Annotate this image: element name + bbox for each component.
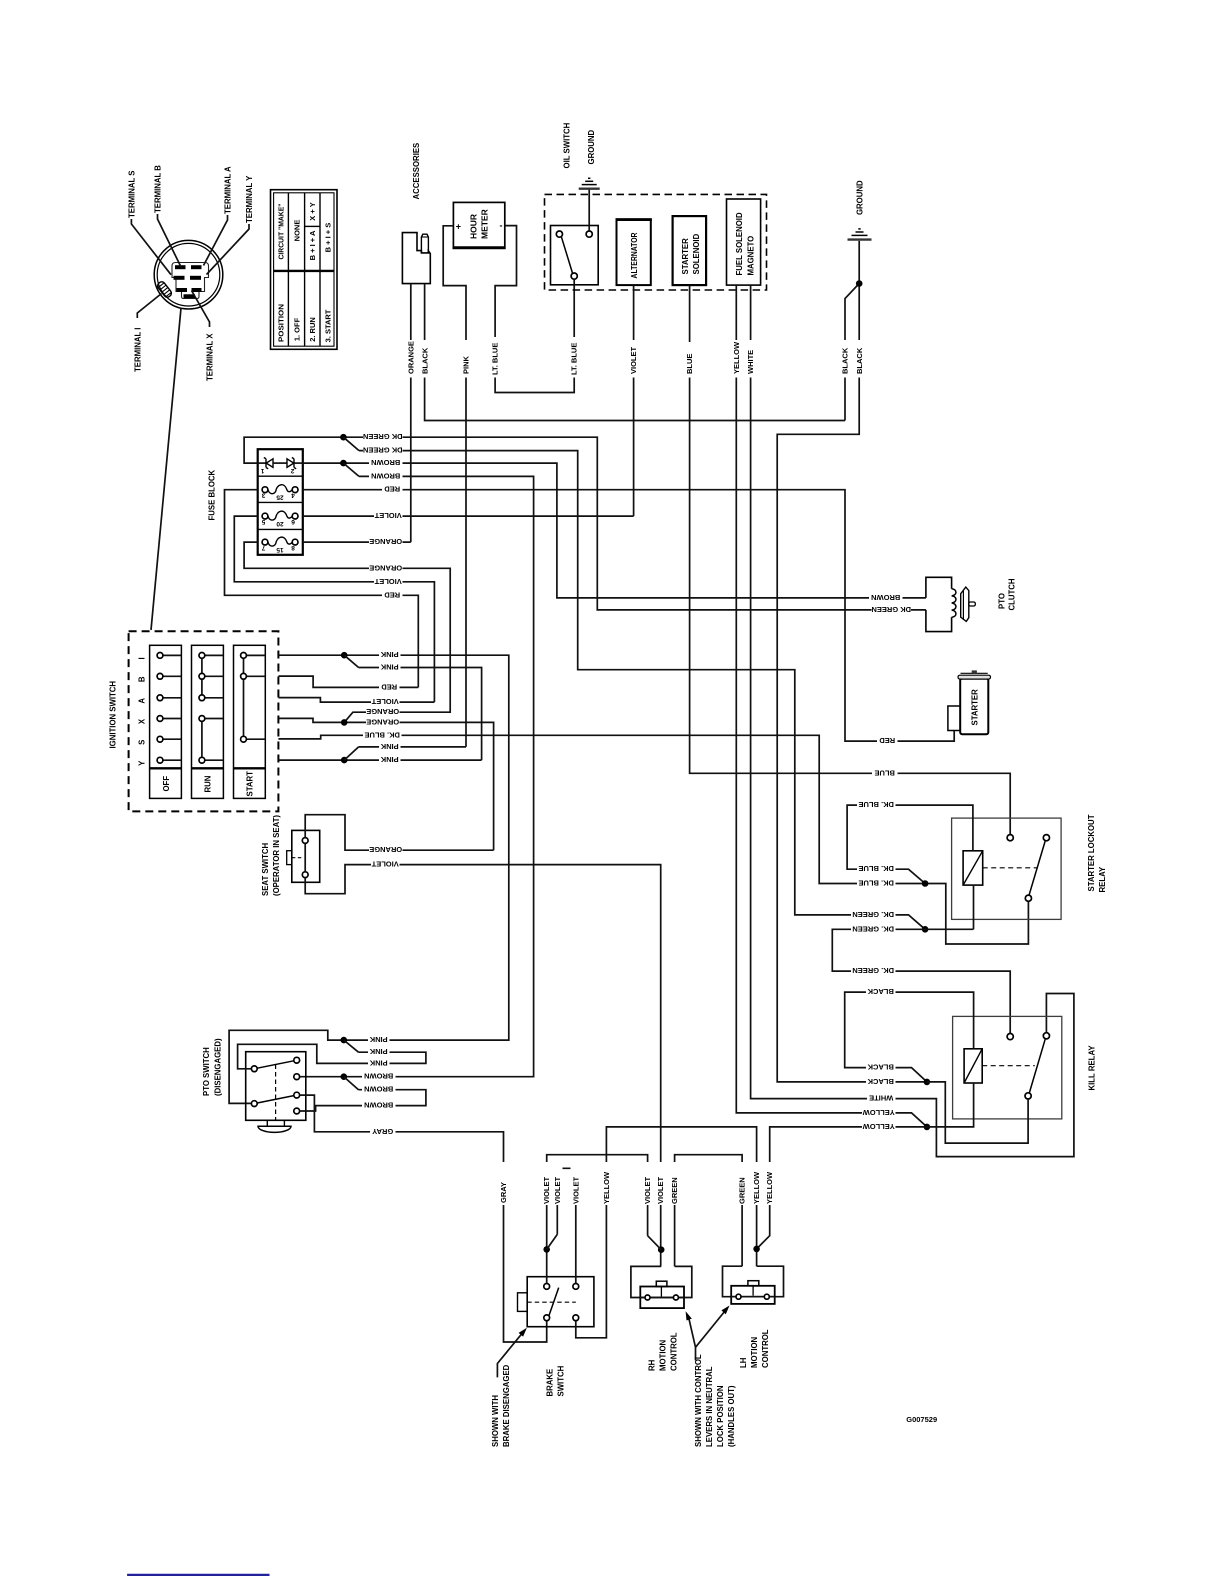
svg-text:PINK: PINK — [380, 663, 399, 672]
svg-text:1. OFF: 1. OFF — [292, 317, 301, 341]
wire YELLOW kill relay to LH motion control — [757, 1127, 927, 1249]
terminal blade S (row1 left) — [175, 265, 186, 269]
wire DK BLUE coil top loop — [847, 805, 973, 883]
label BROWN (PTO row 2) — [362, 1085, 396, 1095]
starter motor cap — [958, 675, 991, 679]
svg-text:6: 6 — [291, 518, 295, 525]
label BROWN (row 1) — [369, 459, 403, 469]
oil switch pin bottom — [571, 273, 577, 279]
label VIOLET (brake wire 3) — [571, 1162, 582, 1205]
svg-text:PINK: PINK — [380, 742, 399, 751]
fuse block divider 2 — [258, 501, 303, 503]
wire DK GREEN diode-left loop to PTO clutch — [244, 437, 926, 610]
wire ORANGE seat switch top bracket — [305, 815, 493, 851]
svg-text:LH: LH — [739, 1357, 748, 1368]
label YELLOW (kill relay row 1) — [862, 1108, 896, 1118]
connector key outline (stepped) — [172, 263, 209, 299]
svg-text:I: I — [137, 657, 146, 659]
svg-text:3. START: 3. START — [324, 309, 333, 342]
PTO switch pins — [251, 1066, 257, 1072]
svg-text:SWITCH: SWITCH — [557, 1365, 566, 1396]
label DK. BLUE (feed row) — [857, 879, 896, 889]
ignition RUN column box — [192, 645, 224, 798]
svg-text:B + I + S: B + I + S — [324, 223, 333, 253]
svg-text:SEAT SWITCH: SEAT SWITCH — [261, 842, 270, 896]
label ORANGE (accessories wire) — [406, 340, 417, 378]
fuel solenoid magneto box — [727, 199, 761, 285]
terminal blade (row2 left) — [174, 276, 185, 280]
svg-text:TERMINAL X: TERMINAL X — [206, 333, 215, 381]
svg-text:OFF: OFF — [162, 776, 171, 792]
label DK. GREEN (coil bottom row) — [851, 925, 896, 935]
label ORANGE (seat switch wire) — [369, 846, 403, 856]
svg-text:TERMINAL I: TERMINAL I — [133, 328, 142, 372]
label DK. BLUE (ignition S row) — [363, 731, 402, 741]
label YELLOW (LH MC wire 2) — [764, 1162, 775, 1205]
svg-text:BLACK: BLACK — [841, 347, 850, 374]
svg-text:GROUND: GROUND — [587, 129, 596, 164]
svg-text:RUN: RUN — [204, 775, 213, 792]
svg-text:PINK: PINK — [380, 755, 399, 764]
wire BLACK ground to kill relay (via left turn) — [777, 284, 927, 1082]
wire BLACK kill coil top loop — [845, 992, 974, 1082]
label WHITE (kill relay row) — [867, 1094, 896, 1104]
svg-text:KILL RELAY: KILL RELAY — [1088, 1045, 1097, 1091]
oil switch blade — [562, 237, 573, 273]
ignition switch rear-view connector: outer circle — [154, 240, 223, 309]
label BLACK (accessories wire) — [420, 340, 431, 378]
svg-text:TERMINAL Y: TERMINAL Y — [245, 175, 254, 223]
svg-text:BROWN: BROWN — [364, 1085, 393, 1094]
svg-text:BLUE: BLUE — [874, 768, 894, 777]
label BLACK (coil row) — [866, 988, 896, 998]
brake switch body — [527, 1277, 594, 1327]
ignition RUN pin stubs and bars — [202, 655, 224, 760]
label BLACK (loop row) — [866, 1063, 896, 1073]
leader line TERMINAL Y — [207, 224, 250, 275]
label RED (loop row) — [382, 591, 403, 601]
table divider line 2 — [304, 193, 306, 346]
LH motion control microswitch box — [731, 1286, 775, 1304]
svg-text:YELLOW: YELLOW — [602, 1171, 611, 1204]
svg-text:A: A — [137, 698, 146, 704]
svg-text:G007529: G007529 — [906, 1415, 937, 1424]
svg-text:DK. BLUE: DK. BLUE — [364, 730, 399, 739]
svg-text:VIOLET: VIOLET — [571, 1176, 580, 1204]
RH motion control microswitch box — [640, 1287, 684, 1309]
brake arrow head — [519, 1328, 527, 1337]
svg-text:TERMINAL B: TERMINAL B — [154, 165, 163, 213]
svg-text:BROWN: BROWN — [371, 458, 400, 467]
svg-text:DK. BLUE: DK. BLUE — [858, 864, 893, 873]
kill relay contact bottom — [1025, 1093, 1031, 1099]
svg-text:POSITION: POSITION — [277, 304, 286, 342]
junction dot ORANGE (X row) — [341, 719, 348, 726]
wire VIOLET fuse5 loop to ignition A — [234, 516, 434, 702]
terminal blade Y (row3 right) — [192, 288, 202, 292]
diode 1 (fuse block cell 1) — [258, 462, 266, 464]
wire VIOLET fuse6 to alternator — [303, 515, 634, 517]
table header divider (thick) — [274, 270, 334, 272]
fuse 15A (cell 4) — [268, 537, 292, 546]
svg-text:RED: RED — [384, 485, 400, 494]
svg-text:-: - — [500, 221, 503, 231]
wire PINK loop to PTO left-top pin — [238, 1044, 426, 1069]
svg-text:VIOLET: VIOLET — [643, 1176, 652, 1204]
engine dashed box — [545, 194, 767, 290]
label DK. GREEN (lockout feed row) — [851, 910, 896, 920]
RH motion control button — [656, 1281, 667, 1286]
LH motion control pins — [736, 1294, 741, 1299]
svg-text:VIOLET: VIOLET — [374, 577, 402, 586]
accessories connector prong — [421, 234, 428, 253]
wire BLUE solenoid to starter lockout relay — [690, 285, 1011, 835]
svg-text:B + I + A: B + I + A — [308, 230, 317, 260]
RH motion control plunger line — [660, 1287, 662, 1297]
svg-text:DK. GREEN: DK. GREEN — [852, 924, 894, 933]
wire hour meter + bracket to PINK — [443, 226, 466, 747]
wire PINK branch diagonal (PTO) — [344, 1040, 359, 1052]
svg-text:PINK: PINK — [369, 1047, 388, 1056]
label BROWN (row 2) — [369, 472, 403, 482]
junction dot YELLOW (LH motion control) — [753, 1246, 760, 1253]
label PINK (PTO row 3) — [368, 1059, 390, 1069]
junction dot BLACK — [924, 1079, 931, 1086]
brake arrow leader — [497, 1332, 523, 1378]
starter lockout relay contact bottom — [1025, 895, 1031, 901]
brake switch pins — [544, 1284, 550, 1290]
brake switch blade — [548, 1288, 559, 1320]
table sub divider X+Y / B+I+A — [305, 225, 320, 227]
svg-text:SHOWN WITH CONTROL: SHOWN WITH CONTROL — [694, 1354, 703, 1447]
svg-text:NONE: NONE — [292, 220, 301, 242]
label BLUE (lockout wire) — [872, 769, 898, 779]
oil switch ground symbol — [579, 187, 600, 189]
wire YELLOW brake bottom-right pin to kill relay line — [576, 1127, 757, 1338]
label RED (fuse row) — [382, 485, 403, 495]
ignition switch dashed box — [129, 631, 279, 811]
seat switch pin top — [302, 838, 308, 844]
svg-text:PINK: PINK — [369, 1035, 388, 1044]
fuse block divider 3 — [258, 528, 303, 530]
junction dot PINK (I row) — [341, 652, 348, 659]
svg-text:ACCESSORIES: ACCESSORIES — [412, 143, 421, 200]
label PINK (PTO row 1) — [368, 1036, 390, 1046]
wire VIOLET loop to brake top-right pin — [557, 1168, 576, 1283]
wire PINK ignition I to PTO switch — [229, 655, 509, 1103]
junction dot VIOLET (RH MC) — [658, 1246, 665, 1253]
svg-text:ORANGE: ORANGE — [369, 563, 402, 572]
leader line from connector to ignition switch box — [151, 308, 181, 630]
accessories connector body — [402, 233, 430, 284]
svg-text:LEVERS IN NEUTRAL: LEVERS IN NEUTRAL — [705, 1366, 714, 1447]
svg-text:BLACK: BLACK — [420, 347, 429, 374]
label VIOLET (brake wire 2) — [552, 1162, 563, 1205]
PTO switch top blade — [257, 1061, 294, 1068]
svg-text:STARTER LOCKOUT: STARTER LOCKOUT — [1087, 814, 1096, 891]
svg-text:BLACK: BLACK — [867, 1063, 894, 1072]
leader line TERMINAL X — [192, 291, 210, 328]
svg-text:B: B — [137, 676, 146, 682]
table divider line 3 — [319, 193, 321, 346]
junction dot BLACK ground — [856, 280, 863, 287]
ignition RUN pins — [199, 653, 205, 659]
svg-text:GREEN: GREEN — [738, 1177, 747, 1204]
junction dot PINK (Y row) — [341, 757, 348, 764]
svg-text:MOTION: MOTION — [750, 1336, 759, 1368]
svg-text:MOTION: MOTION — [659, 1339, 668, 1371]
starter lockout relay coil — [963, 851, 983, 885]
brake switch tab — [518, 1293, 528, 1312]
wire BLACK branch to accessories horizontal — [845, 284, 859, 421]
PTO switch body — [246, 1052, 306, 1121]
leader line TERMINAL I — [137, 294, 161, 319]
wire BROWN branch diagonal (PTO) — [344, 1077, 359, 1090]
label YELLOW (brake vertical) — [601, 1162, 612, 1205]
footer blue line — [127, 1574, 269, 1576]
label BROWN (PTO clutch wire) — [869, 593, 903, 603]
wire VIOLET brake top-left pin to RH motion control bridge — [547, 1155, 648, 1284]
svg-text:BROWN: BROWN — [371, 471, 400, 480]
label VIOLET (brake wire 1) — [541, 1162, 552, 1205]
wire DK GREEN net to kill relay — [832, 929, 1010, 1033]
wire ORANGE fuse7 loop to ignition X branch — [244, 542, 450, 722]
fuse 25A (cell 2) — [268, 485, 292, 494]
label BLACK (right wire) — [854, 340, 865, 378]
label BROWN (PTO row 1) — [362, 1072, 396, 1082]
svg-text:S: S — [137, 740, 146, 745]
svg-text:TERMINAL S: TERMINAL S — [128, 170, 137, 218]
PTO switch button necks — [266, 1120, 268, 1126]
starter lockout relay mech link (dashed) — [983, 867, 1037, 869]
label DK GREEN (row 2) — [363, 446, 403, 456]
label DK GREEN (row 1) — [363, 433, 403, 443]
wire PINK 2 branch down — [359, 668, 482, 761]
label YELLOW (LH MC wire 1) — [751, 1162, 762, 1205]
svg-text:YELLOW: YELLOW — [765, 1171, 774, 1204]
svg-text:FUEL SOLENOID: FUEL SOLENOID — [735, 212, 744, 275]
wire VIOLET ignition A jog — [278, 698, 434, 703]
label ORANGE (ignition X branch row) — [366, 708, 400, 718]
label PINK (branch row) — [379, 663, 401, 673]
LH motion control connector bracket — [723, 1266, 784, 1297]
oil switch ground stem — [588, 190, 590, 232]
svg-text:BRAKE: BRAKE — [546, 1369, 555, 1397]
PTO switch bottom blade — [257, 1096, 294, 1103]
terminal blade A (row2 right) — [190, 276, 201, 280]
svg-text:YELLOW: YELLOW — [862, 1122, 895, 1131]
hour meter box thick bottom edge — [453, 246, 506, 249]
wire PINK branch diagonal (I row) — [344, 655, 358, 667]
svg-text:METER: METER — [479, 209, 489, 239]
ignition OFF column box — [150, 645, 182, 798]
label VIOLET (alternator wire) — [628, 340, 639, 378]
svg-text:2. RUN: 2. RUN — [308, 317, 317, 342]
RH motion control connector bracket — [631, 1266, 692, 1297]
switch position table: inner border — [274, 193, 334, 346]
svg-text:LOCK POSITION: LOCK POSITION — [716, 1385, 725, 1447]
kill relay contact top — [1007, 1034, 1013, 1040]
terminal blade B (row1 right) — [191, 265, 202, 269]
leader line TERMINAL S — [131, 219, 171, 275]
alternator box — [617, 219, 651, 285]
label WHITE (magneto wire) — [745, 340, 756, 378]
svg-text:BROWN: BROWN — [364, 1072, 393, 1081]
label DK. BLUE (loop row) — [857, 865, 896, 875]
wire GREEN RH to LH motion control bridge — [675, 1155, 743, 1267]
wire DK GREEN lockout coil bottom — [973, 885, 975, 929]
label GREEN (RH MC wire) — [669, 1162, 680, 1205]
label GRAY (PTO row) — [370, 1127, 396, 1137]
junction dot BROWN — [340, 460, 347, 467]
svg-text:GROUND: GROUND — [856, 180, 865, 215]
label VIOLET (loop row) — [374, 577, 403, 587]
label BLUE (solenoid wire, vertical) — [684, 342, 695, 378]
fuse 20A (cell 3) — [268, 511, 292, 520]
ignition OFF pins — [157, 653, 163, 659]
svg-text:RED: RED — [381, 682, 397, 691]
label RED (ignition B row) — [379, 683, 400, 693]
wire GRAY PTO switch to brake switch — [300, 1095, 547, 1342]
wire PINK branch diagonal (Y row) — [344, 747, 358, 760]
svg-text:ORANGE: ORANGE — [369, 845, 402, 854]
terminal I hatched keyway — [156, 280, 173, 298]
svg-text:DK. BLUE: DK. BLUE — [858, 879, 893, 888]
svg-text:ORANGE: ORANGE — [366, 707, 399, 716]
oil switch pin right — [586, 231, 592, 237]
label DK. BLUE (coil row) — [857, 801, 896, 811]
label RED (starter wire) — [877, 737, 898, 747]
wire PINK ignition Y row — [278, 759, 481, 761]
motion control arrows fork — [688, 1316, 695, 1361]
label DK GREEN (PTO clutch wire) — [872, 605, 912, 615]
svg-text:GRAY: GRAY — [499, 1182, 508, 1203]
label PINK (I row) — [379, 651, 401, 661]
wire ORANGE accessories-to-fuse8 (vertical) — [410, 284, 412, 542]
oil switch pin left — [556, 231, 562, 237]
starter motor top plate — [961, 672, 988, 674]
svg-text:PINK: PINK — [462, 355, 471, 374]
label LT. BLUE (oil switch wire) — [569, 337, 580, 378]
svg-text:X + Y: X + Y — [308, 202, 317, 220]
svg-text:ORANGE: ORANGE — [366, 717, 399, 726]
junction dot DK GREEN (lockout) — [922, 926, 929, 933]
svg-text:CIRCUIT "MAKE": CIRCUIT "MAKE" — [277, 203, 286, 259]
label BLACK (feed row) — [866, 1077, 896, 1087]
wire VIOLET alternator-to-fuse6 — [633, 285, 635, 516]
svg-text:DK. BLUE: DK. BLUE — [858, 800, 893, 809]
svg-text:BLACK: BLACK — [855, 347, 864, 374]
svg-text:BRAKE DISENGAGED: BRAKE DISENGAGED — [502, 1364, 511, 1447]
svg-text:Y: Y — [137, 760, 146, 766]
svg-text:7: 7 — [261, 544, 265, 551]
svg-text:PINK: PINK — [369, 1058, 388, 1067]
wire BROWN diode-right to PTO clutch — [303, 463, 926, 598]
wire BROWN branch diagonal — [343, 463, 359, 476]
label BLACK (left wire) — [840, 340, 851, 378]
svg-text:BLUE: BLUE — [685, 354, 694, 374]
accessories connector prong cap line — [421, 236, 428, 238]
wire BLACK accessories-to-ground — [425, 284, 845, 421]
wire BLACK feed to kill switch bottom — [927, 1082, 1028, 1143]
ignition OFF divider — [150, 767, 182, 769]
svg-text:FUSE BLOCK: FUSE BLOCK — [208, 469, 217, 520]
label PINK (S branch row) — [379, 742, 401, 752]
diode 2 (fuse block cell 1) — [287, 459, 294, 468]
kill relay blade — [1029, 1039, 1045, 1093]
starter lockout relay contact top — [1007, 835, 1013, 841]
ignition START divider — [234, 767, 266, 769]
label GRAY (vertical wire) — [498, 1162, 509, 1205]
svg-text:25: 25 — [276, 494, 284, 501]
PTO clutch coil bumps — [952, 589, 956, 618]
svg-text:ALTERNATOR: ALTERNATOR — [629, 233, 639, 279]
leader line TERMINAL B — [158, 214, 182, 267]
svg-text:PINK: PINK — [380, 650, 399, 659]
wire DK GREEN 2 to starter lockout — [359, 451, 925, 930]
LH motion control plunger line — [752, 1286, 754, 1296]
svg-text:1: 1 — [260, 467, 264, 474]
svg-text:VIOLET: VIOLET — [371, 860, 399, 869]
PTO switch dashed actuator line — [275, 1065, 277, 1120]
ignition switch rear-view connector: inner circle — [157, 243, 220, 306]
junction dot VIOLET (brake) — [543, 1246, 550, 1253]
ignition OFF pin stubs — [160, 655, 181, 760]
svg-text:ORANGE: ORANGE — [369, 537, 402, 546]
svg-text:RED: RED — [879, 736, 895, 745]
svg-text:RH: RH — [648, 1359, 657, 1371]
svg-text:BROWN: BROWN — [364, 1101, 393, 1110]
svg-text:VIOLET: VIOLET — [374, 511, 402, 520]
svg-text:VIOLET: VIOLET — [553, 1176, 562, 1204]
svg-text:VIOLET: VIOLET — [371, 697, 399, 706]
LH motion control arrow head — [721, 1306, 729, 1315]
label PINK (Y row) — [379, 756, 401, 766]
terminal blade (row3 left) — [177, 288, 188, 292]
switch position table: outer border — [271, 190, 338, 350]
wire hour meter - bracket to LT.BLUE — [495, 226, 574, 393]
oil switch box — [551, 226, 599, 285]
svg-text:DK GREEN: DK GREEN — [363, 432, 403, 441]
svg-text:20: 20 — [276, 520, 284, 527]
junction dot DK BLUE — [922, 880, 929, 887]
label LT. BLUE (hour meter wire) — [490, 337, 501, 378]
ignition START pins — [241, 653, 247, 659]
svg-text:LT. BLUE: LT. BLUE — [570, 343, 579, 375]
wire BROWN loop to PTO right-fourth pin — [300, 1090, 426, 1111]
svg-text:START: START — [246, 771, 255, 797]
svg-text:SOLENOID: SOLENOID — [692, 233, 701, 274]
svg-text:DK GREEN: DK GREEN — [363, 446, 403, 455]
label YELLOW (fuel solenoid wire) — [731, 340, 742, 378]
svg-text:3: 3 — [261, 492, 265, 499]
svg-text:5: 5 — [261, 518, 265, 525]
leader line TERMINAL A — [204, 215, 228, 266]
seat switch actuator dashed line — [292, 857, 304, 859]
svg-text:CONTROL: CONTROL — [761, 1329, 770, 1368]
svg-text:MAGNETO: MAGNETO — [747, 236, 756, 276]
svg-text:LT. BLUE: LT. BLUE — [491, 343, 500, 375]
wire RED ignition B jog — [278, 676, 418, 687]
svg-text:CLUTCH: CLUTCH — [1007, 578, 1016, 610]
seat switch tab — [287, 851, 292, 865]
svg-text:CONTROL: CONTROL — [670, 1332, 679, 1371]
svg-text:(DISENGAGED): (DISENGAGED) — [214, 1038, 223, 1096]
label YELLOW (kill relay row 2) — [862, 1122, 896, 1132]
chassis ground symbol (right) — [848, 238, 872, 240]
starter motor nipple — [972, 670, 977, 673]
label ORANGE (fuse row) — [369, 538, 403, 548]
